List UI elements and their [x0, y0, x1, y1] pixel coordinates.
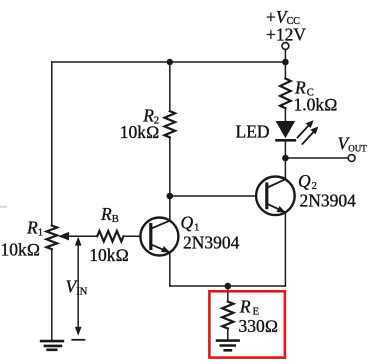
wire left vertical (top rail to R1 top): [51, 62, 53, 226]
transistor Q2: [256, 177, 295, 216]
svg-text:2N3904: 2N3904: [183, 232, 240, 252]
terminal +VCC circle: [282, 43, 289, 50]
ground RE: [217, 341, 239, 351]
wire Q1 emitter vertical: [169, 252, 171, 286]
svg-text:10kΩ: 10kΩ: [120, 122, 160, 142]
svg-text:10kΩ: 10kΩ: [89, 245, 129, 265]
node dot VOUT: [282, 155, 289, 162]
svg-text:330Ω: 330Ω: [239, 316, 279, 336]
wire RE top lead: [227, 286, 229, 302]
resistor RB: [97, 231, 123, 241]
LED light arrow 2: [303, 127, 319, 144]
wire RC top lead: [284, 62, 286, 79]
transistor Q1: [140, 218, 178, 256]
LED D1: [276, 121, 296, 138]
wire RE bottom lead: [227, 329, 229, 341]
node dot top rail / RC: [282, 59, 289, 66]
ground left: [41, 341, 63, 350]
wire LED to VOUT node: [284, 140, 286, 158]
LED light arrow 1: [298, 120, 314, 137]
scan artifact dash: [0, 206, 7, 208]
node dot R2 bottom / Q1 collector / Q2 base: [167, 193, 174, 200]
highlight box around RE: [209, 291, 285, 357]
wire Q1 collector vertical: [169, 196, 171, 221]
svg-text:1.0kΩ: 1.0kΩ: [294, 95, 338, 115]
resistor R2: [165, 111, 176, 137]
resistor R1: [47, 226, 58, 250]
wire Q2 collector vertical: [284, 158, 286, 179]
wire RB left to R1 wiper: [68, 235, 97, 237]
wire R2 top lead: [169, 62, 171, 111]
wire RC bottom lead to LED: [284, 108, 286, 121]
VIN measurement arrow: [72, 237, 84, 340]
wire VOUT node to terminal: [285, 157, 348, 159]
potentiometer R1 wiper arrow: [58, 232, 69, 241]
node dot RE: [225, 283, 232, 290]
terminal VOUT circle: [348, 155, 355, 162]
terminal +VCC lead: [284, 50, 286, 63]
svg-text:10kΩ: 10kΩ: [1, 239, 41, 259]
resistor RE: [222, 302, 233, 329]
svg-text:2N3904: 2N3904: [300, 190, 357, 210]
wire R2 bottom lead: [169, 137, 171, 196]
resistor RC: [280, 79, 291, 109]
node dot top rail / R2: [167, 59, 173, 65]
svg-text:+12V: +12V: [266, 25, 306, 45]
wire bottom rail: [170, 285, 286, 287]
wire R1 bottom to ground: [51, 249, 53, 341]
svg-text:LED: LED: [236, 122, 270, 142]
wire top rail: [52, 61, 286, 63]
wire Q2 base: [170, 195, 256, 197]
wire Q2 emitter vertical: [284, 212, 286, 286]
wire Q1 base from RB: [124, 235, 141, 237]
